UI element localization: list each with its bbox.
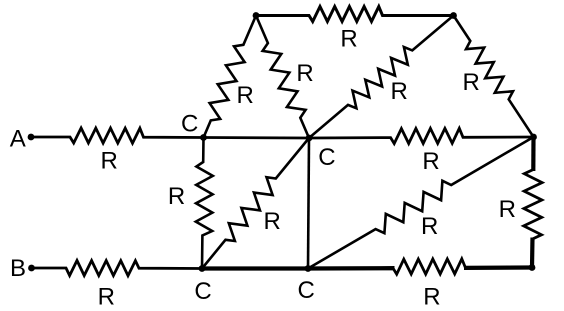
svg-text:R: R: [340, 26, 357, 53]
svg-text:R: R: [168, 183, 185, 210]
svg-text:C: C: [298, 277, 315, 304]
svg-text:R: R: [237, 82, 254, 109]
svg-text:C: C: [318, 144, 335, 171]
svg-text:R: R: [296, 60, 313, 87]
svg-text:C: C: [194, 278, 211, 305]
svg-text:B: B: [10, 255, 26, 282]
svg-text:R: R: [499, 196, 516, 223]
svg-text:R: R: [421, 213, 438, 240]
svg-text:R: R: [422, 148, 439, 175]
svg-text:R: R: [98, 283, 115, 310]
svg-text:R: R: [264, 208, 281, 235]
svg-text:R: R: [423, 284, 440, 311]
svg-text:R: R: [463, 69, 480, 96]
svg-text:C: C: [181, 110, 198, 137]
svg-text:A: A: [10, 126, 26, 153]
svg-text:R: R: [391, 78, 408, 105]
svg-text:R: R: [101, 148, 118, 175]
